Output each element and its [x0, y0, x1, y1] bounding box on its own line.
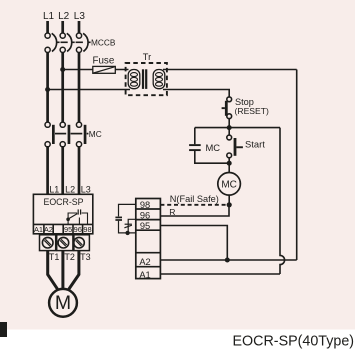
motor M — [49, 289, 77, 317]
svg-text:MC: MC — [206, 142, 221, 153]
wire L3 drop to MCCB — [78, 21, 81, 33]
svg-text:L3: L3 — [74, 11, 86, 22]
wire L3 MCCB to MC — [78, 53, 81, 123]
wire L1 drop to MCCB — [46, 21, 49, 33]
wire T2 to motor — [61, 251, 64, 290]
svg-text:MC: MC — [89, 129, 102, 139]
svg-text:EOCR-SP: EOCR-SP — [43, 197, 83, 207]
contactor MC pole 3 — [76, 122, 86, 147]
svg-text:MC: MC — [221, 179, 237, 190]
pushbutton Start — [227, 135, 243, 158]
junction dot L2 fuse tap — [60, 67, 65, 72]
coil MC — [218, 173, 241, 196]
wire L2 MC to EOCR — [61, 147, 64, 195]
wire R from 96 — [160, 206, 229, 216]
wire right rail vertical — [296, 70, 298, 261]
wire capacitor feed from 98 — [119, 204, 136, 216]
junction dot below Stop — [227, 125, 232, 130]
junction dot Start bottom — [227, 161, 232, 166]
svg-text:T1: T1 — [49, 252, 60, 262]
wire T1 to motor — [48, 251, 58, 290]
svg-text:A1: A1 — [139, 270, 150, 280]
screw terminal T3 — [74, 235, 90, 251]
wire A1 line — [160, 273, 280, 275]
svg-text:Start: Start — [245, 138, 265, 149]
wire L1 MCCB to MC — [46, 53, 49, 123]
svg-text:96: 96 — [74, 225, 82, 234]
MCCB linkage dashes — [57, 41, 91, 43]
wire branch top — [195, 127, 280, 129]
wire Start to MC coil — [228, 158, 230, 173]
wire A2 line — [160, 259, 296, 261]
junction dot N — [227, 202, 232, 207]
svg-text:EOCR-SP(40Type): EOCR-SP(40Type) — [233, 334, 355, 350]
relay EOCR-SP box — [33, 194, 92, 234]
terminal block — [136, 199, 161, 279]
screw terminal T1 — [40, 235, 56, 251]
svg-text:T2: T2 — [64, 252, 75, 262]
wire L1 to Tr primary bottom — [48, 89, 130, 91]
svg-text:95: 95 — [140, 221, 150, 231]
MC linkage dashes — [55, 133, 88, 135]
contactor MC pole 2 — [60, 122, 70, 147]
wire 95 to A2 line — [160, 226, 227, 261]
svg-text:L2: L2 — [58, 11, 70, 22]
wire L2 MCCB to MC — [61, 53, 64, 123]
svg-text:96: 96 — [140, 211, 150, 221]
screw terminal T2 — [57, 235, 73, 251]
wire capacitor bottom — [119, 221, 136, 233]
wire start rail with hop over A2 — [280, 128, 285, 274]
breaker MCCB pole 2 — [60, 33, 72, 53]
wire Tr secondary bottom to Stop — [163, 90, 229, 98]
contactor MC pole 1 — [45, 122, 55, 147]
wire branch left upper — [194, 128, 196, 145]
wire L3 MC to EOCR — [78, 147, 81, 195]
white footer strip — [0, 330, 355, 360]
svg-text:L1: L1 — [43, 11, 55, 22]
svg-text:A2: A2 — [139, 257, 150, 267]
junction dot L1 tap — [45, 87, 50, 92]
fuse body — [93, 66, 116, 73]
contact MC aux plates — [189, 145, 201, 150]
wire MC coil to N junction — [228, 195, 230, 205]
svg-text:N(Fail Safe): N(Fail Safe) — [170, 194, 219, 204]
wire L2 to fuse to Tr — [63, 69, 129, 71]
svg-text:98: 98 — [83, 225, 91, 234]
wire L1 MC to EOCR — [46, 147, 49, 195]
wire junction to Start — [228, 128, 230, 136]
wire T3 to motor — [69, 251, 79, 290]
junction dot snubber — [125, 231, 129, 235]
wire branch left lower — [195, 151, 229, 163]
svg-text:Fuse: Fuse — [93, 55, 115, 66]
svg-text:A1: A1 — [34, 225, 43, 234]
svg-text:L3: L3 — [81, 184, 91, 194]
wire N dashed fail-safe — [160, 204, 229, 206]
svg-text:MCCB: MCCB — [91, 38, 116, 48]
svg-text:L2: L2 — [65, 184, 75, 194]
svg-text:98: 98 — [140, 200, 150, 210]
svg-text:95: 95 — [64, 225, 72, 234]
transformer Tr — [126, 63, 167, 95]
wire Stop to junction — [228, 119, 230, 130]
capacitor plates — [115, 217, 122, 220]
internal contact — [66, 209, 87, 224]
edge mark — [0, 322, 7, 337]
svg-text:L1: L1 — [49, 184, 59, 194]
svg-text:T3: T3 — [80, 252, 91, 262]
wire L2 drop to MCCB — [61, 21, 64, 33]
pushbutton Stop — [222, 97, 232, 119]
svg-text:M: M — [55, 292, 71, 314]
svg-text:(RESET): (RESET) — [235, 106, 270, 116]
breaker MCCB pole 3 — [76, 33, 88, 53]
svg-text:A2: A2 — [44, 225, 53, 234]
breaker MCCB pole 1 — [45, 33, 57, 53]
wire Tr secondary top to right rail — [163, 69, 297, 71]
svg-text:Tr: Tr — [143, 52, 151, 62]
junction dot A2 — [225, 258, 230, 263]
varistor element — [124, 219, 135, 233]
